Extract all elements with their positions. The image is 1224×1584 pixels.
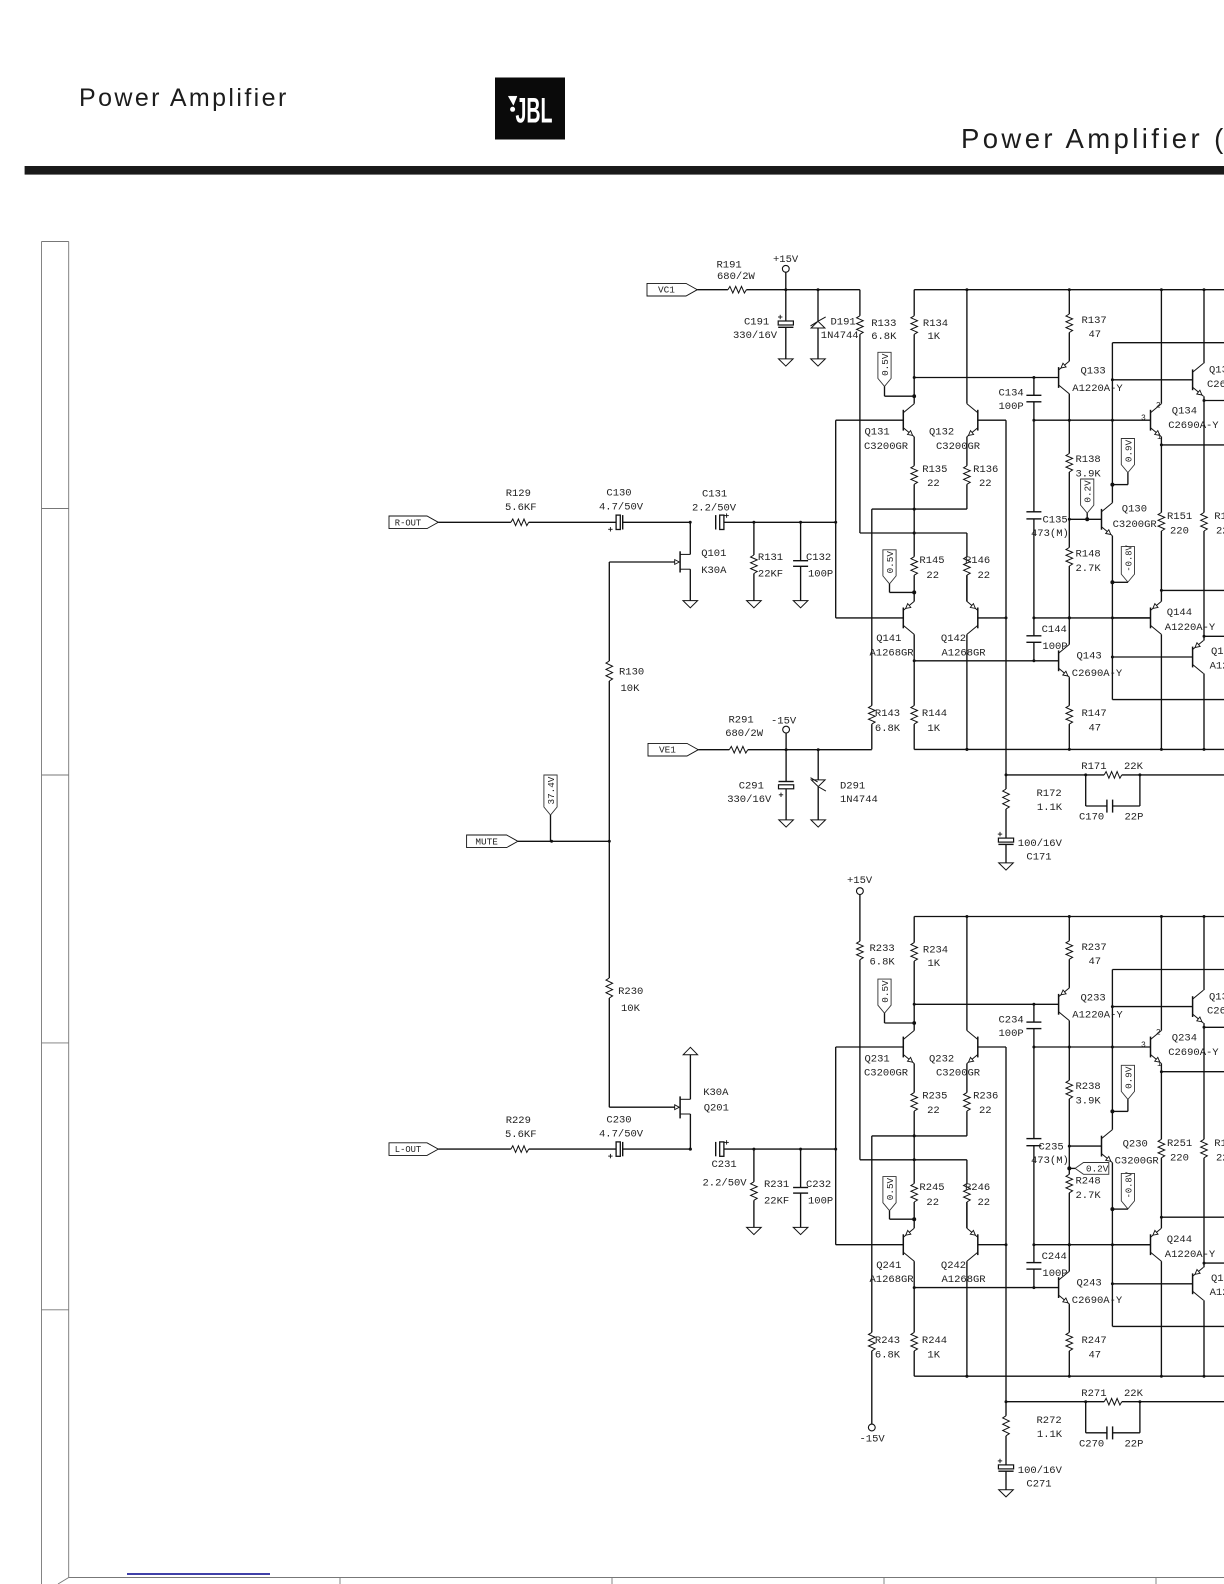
wire — [1068, 959, 1070, 988]
ground — [999, 1490, 1014, 1497]
wire — [1112, 342, 1224, 344]
wire — [697, 289, 728, 291]
junction — [1138, 1400, 1141, 1403]
wire — [966, 437, 968, 466]
svg-text:C2690A-Y: C2690A-Y — [1168, 420, 1219, 432]
svg-text:Q131: Q131 — [865, 427, 890, 439]
resistor R145 — [911, 557, 918, 576]
junction — [912, 1217, 916, 1221]
svg-text:1K: 1K — [927, 1350, 940, 1362]
resistor R233 — [857, 941, 864, 960]
resistor R143 — [869, 706, 876, 725]
svg-text:0.5V: 0.5V — [880, 353, 891, 376]
junction — [1203, 1375, 1206, 1378]
wire — [1033, 402, 1035, 512]
ground — [747, 1227, 762, 1234]
wire — [871, 1351, 873, 1424]
junction — [1111, 1046, 1114, 1049]
svg-text:1K: 1K — [928, 331, 941, 343]
wire — [748, 749, 872, 751]
junction — [913, 1134, 916, 1137]
svg-text:1K: 1K — [928, 958, 941, 970]
junction — [913, 1003, 916, 1006]
svg-text:R231: R231 — [764, 1179, 789, 1191]
junction — [1203, 915, 1206, 918]
svg-text:220: 220 — [1170, 526, 1189, 538]
resistor R291 — [729, 746, 748, 753]
svg-text:22: 22 — [979, 1105, 992, 1117]
capacitor C135 — [1026, 511, 1041, 513]
svg-text:Q143: Q143 — [1077, 651, 1102, 663]
svg-text:C271: C271 — [1026, 1478, 1051, 1490]
svg-text:6.8K: 6.8K — [871, 331, 897, 343]
svg-text:R148: R148 — [1076, 549, 1101, 561]
svg-text:R191: R191 — [717, 260, 742, 272]
svg-text:10K: 10K — [621, 683, 641, 695]
svg-text:0.9V: 0.9V — [1123, 1066, 1134, 1089]
resistor R129 — [511, 519, 529, 526]
wire — [1160, 590, 1162, 601]
svg-text:R171: R171 — [1081, 761, 1106, 773]
wire — [1068, 1099, 1070, 1146]
wire — [529, 1148, 616, 1150]
wire — [518, 840, 609, 842]
capacitor C232 — [793, 1187, 808, 1189]
wire — [1122, 774, 1224, 776]
wire — [818, 289, 860, 291]
transistor Q101 K30A jfet — [679, 551, 681, 572]
wire — [529, 521, 616, 523]
wire — [1033, 378, 1035, 396]
wire — [1033, 1269, 1035, 1288]
junction — [1084, 1400, 1087, 1403]
wire — [715, 521, 717, 523]
svg-text:VC1: VC1 — [658, 285, 675, 296]
transistor Q143 — [1058, 650, 1060, 671]
wire — [785, 789, 787, 820]
svg-text:R230: R230 — [618, 986, 643, 998]
junction — [912, 590, 916, 594]
wire — [746, 289, 785, 291]
transistor Q232 — [977, 1037, 979, 1058]
wire — [1068, 519, 1070, 547]
svg-text:0.9V: 0.9V — [1123, 439, 1134, 462]
wire — [913, 961, 915, 1004]
wire — [608, 841, 610, 978]
svg-text:C3200GR: C3200GR — [936, 441, 981, 453]
wire — [1160, 1261, 1162, 1376]
svg-text:R248: R248 — [1076, 1175, 1101, 1187]
wire — [966, 290, 968, 404]
resistor R133 — [857, 316, 864, 335]
capacitor C170 — [1106, 800, 1108, 813]
svg-text:R238: R238 — [1076, 1081, 1101, 1093]
wire — [1068, 290, 1070, 314]
junction — [965, 288, 968, 291]
svg-text:Q241: Q241 — [876, 1260, 901, 1272]
svg-text:Q234: Q234 — [1172, 1032, 1197, 1044]
connector tag L-OUT — [389, 1143, 438, 1156]
svg-text:C2690A-Y: C2690A-Y — [1072, 668, 1123, 680]
resistor R230 — [606, 978, 613, 998]
wire — [438, 521, 511, 523]
svg-text:5.6KF: 5.6KF — [505, 502, 537, 514]
transistor Q201 K30A jfet — [679, 1096, 681, 1118]
svg-text:R236: R236 — [973, 1091, 998, 1103]
resistor R146 — [964, 557, 971, 576]
wire — [860, 532, 967, 534]
svg-text:C2690A-Y: C2690A-Y — [1207, 379, 1224, 391]
wire — [859, 290, 861, 316]
junction — [965, 748, 968, 751]
capacitor C144 — [1026, 635, 1041, 637]
wire — [1033, 642, 1035, 661]
resistor R244 — [911, 1332, 918, 1351]
svg-text:680/2W: 680/2W — [725, 728, 764, 740]
svg-text:Q135: Q135 — [1209, 991, 1224, 1003]
wire — [913, 378, 915, 397]
svg-text:Q230: Q230 — [1123, 1139, 1148, 1151]
wire — [1112, 1208, 1128, 1210]
svg-text:Q145: Q145 — [1211, 646, 1224, 658]
wire — [1005, 844, 1007, 863]
wire — [871, 509, 873, 705]
capacitor C231 — [715, 1142, 717, 1156]
junction — [689, 521, 692, 524]
wire — [1203, 636, 1205, 640]
wire — [1112, 1325, 1224, 1327]
svg-text:R131: R131 — [758, 552, 783, 564]
resistor R236 — [964, 1093, 971, 1112]
wire — [1203, 1263, 1205, 1267]
wire — [1112, 969, 1224, 971]
wire — [1203, 1300, 1205, 1376]
svg-text:22KF: 22KF — [764, 1195, 789, 1207]
wire — [800, 1149, 802, 1187]
svg-text:473(M): 473(M) — [1031, 528, 1069, 540]
wire — [1160, 1158, 1162, 1217]
wire — [1204, 1026, 1224, 1028]
transistor Q241 — [902, 1234, 904, 1255]
svg-text:2.7K: 2.7K — [1076, 1190, 1102, 1202]
wire — [1112, 581, 1128, 583]
transistor Q135 — [1192, 369, 1194, 390]
wire — [835, 1047, 837, 1245]
svg-text:3: 3 — [1141, 414, 1146, 423]
wire — [1161, 589, 1224, 591]
wire — [978, 617, 1006, 619]
svg-text:3: 3 — [1141, 1041, 1146, 1050]
wire — [785, 327, 787, 359]
wire — [966, 1064, 968, 1093]
svg-text:Q243: Q243 — [1077, 1277, 1102, 1289]
wire — [913, 1202, 915, 1219]
svg-text:22K: 22K — [1124, 1388, 1144, 1400]
junction — [834, 1148, 837, 1151]
junction — [550, 840, 553, 843]
junction — [913, 508, 916, 511]
junction — [1160, 1070, 1163, 1073]
junction — [965, 915, 968, 918]
junction — [1068, 1243, 1071, 1246]
svg-text:47: 47 — [1089, 329, 1102, 341]
voltage flag 0.5V — [878, 352, 891, 386]
svg-text:C132: C132 — [806, 552, 831, 564]
wire — [550, 815, 552, 841]
wire — [1005, 1047, 1007, 1402]
wire — [1005, 809, 1007, 838]
resistor R137 — [1066, 314, 1073, 333]
junction — [1067, 1166, 1071, 1170]
junction — [1005, 773, 1008, 776]
svg-text:Q233: Q233 — [1081, 992, 1106, 1004]
capacitor C244 — [1026, 1262, 1041, 1264]
svg-text:C235: C235 — [1039, 1141, 1064, 1153]
svg-text:22K: 22K — [1124, 761, 1144, 773]
svg-text:C230: C230 — [606, 1114, 631, 1126]
voltage flag 37.4V — [544, 775, 557, 815]
wire — [801, 521, 836, 523]
JBL logo — [495, 78, 565, 140]
svg-text:4.7/50V: 4.7/50V — [599, 1128, 644, 1140]
ground — [779, 359, 794, 366]
ground — [793, 601, 808, 608]
svg-text:R152: R152 — [1214, 1138, 1224, 1150]
wire — [1160, 634, 1162, 749]
svg-text:100P: 100P — [1042, 1268, 1067, 1280]
wire — [859, 334, 861, 533]
junction — [1203, 399, 1206, 402]
junction — [913, 532, 916, 535]
svg-text:22: 22 — [978, 1197, 991, 1209]
svg-text:22: 22 — [926, 1197, 939, 1209]
power terminal +15V — [782, 265, 789, 272]
junction — [1068, 1046, 1071, 1049]
svg-text:47: 47 — [1089, 956, 1102, 968]
svg-text:R235: R235 — [922, 1091, 947, 1103]
junction — [913, 1158, 916, 1161]
junction — [784, 288, 787, 291]
transistor Q242 — [977, 1234, 979, 1255]
junction — [817, 748, 820, 751]
wire — [817, 750, 819, 780]
transistor Q145 — [1192, 647, 1194, 668]
svg-text:C231: C231 — [712, 1159, 737, 1171]
wire — [1204, 635, 1224, 637]
junction — [1068, 915, 1071, 918]
resistor R245 — [911, 1184, 918, 1203]
wire — [871, 1136, 873, 1333]
svg-text:R136: R136 — [973, 464, 998, 476]
svg-text:R-OUT: R-OUT — [395, 518, 421, 528]
wire — [966, 1202, 968, 1228]
wire — [1160, 917, 1162, 1031]
svg-text:220: 220 — [1216, 526, 1224, 538]
svg-text:100P: 100P — [1042, 641, 1067, 653]
junction — [785, 748, 788, 751]
wire — [1161, 1071, 1224, 1073]
wire — [913, 396, 915, 404]
svg-text:Q134: Q134 — [1172, 406, 1197, 418]
wire — [1111, 343, 1113, 503]
wire — [871, 724, 873, 749]
wire — [860, 1159, 967, 1161]
wire — [966, 1160, 968, 1184]
svg-text:10K: 10K — [621, 1003, 641, 1015]
wire — [1005, 1436, 1007, 1465]
junction — [1068, 748, 1071, 751]
svg-text:JBL: JBL — [516, 91, 553, 130]
junction — [912, 1021, 916, 1025]
wire — [1161, 444, 1224, 446]
svg-text:R172: R172 — [1037, 788, 1062, 800]
svg-text:-0.8V: -0.8V — [1124, 544, 1134, 571]
wire — [753, 1200, 755, 1227]
junction — [1005, 1400, 1008, 1403]
junction — [752, 1148, 755, 1151]
junction — [1160, 1375, 1163, 1378]
junction — [1111, 616, 1114, 619]
junction — [834, 521, 837, 524]
svg-text:Q135: Q135 — [1209, 365, 1224, 377]
resistor R234 — [911, 943, 918, 962]
svg-text:C3200GR: C3200GR — [936, 1068, 981, 1080]
svg-text:5.6KF: 5.6KF — [505, 1129, 537, 1141]
capacitor C134 — [1026, 394, 1041, 396]
wire — [966, 634, 968, 749]
svg-text:4.7/50V: 4.7/50V — [599, 502, 644, 514]
resistor R229 — [511, 1146, 529, 1153]
wire — [914, 748, 1224, 750]
wire — [884, 1013, 886, 1023]
junction — [1111, 1005, 1114, 1008]
svg-text:C2690A-Y: C2690A-Y — [1072, 1295, 1123, 1307]
wire — [1034, 1244, 1151, 1246]
svg-text:R144: R144 — [922, 708, 947, 720]
svg-text:22KF: 22KF — [758, 569, 783, 581]
wire — [1068, 566, 1070, 618]
transistor Q134 — [1150, 410, 1152, 431]
junction — [1068, 518, 1071, 521]
wire — [1203, 1158, 1205, 1263]
wire — [1160, 1064, 1162, 1072]
wire — [1005, 420, 1007, 775]
capacitor C291 — [779, 781, 794, 783]
resistor R235 — [911, 1093, 918, 1112]
svg-text:Power Amplifier (: Power Amplifier ( — [961, 123, 1224, 154]
junction — [1111, 378, 1114, 381]
svg-text:A1268GR: A1268GR — [870, 1274, 915, 1286]
junction — [1068, 616, 1071, 619]
wire — [914, 289, 1224, 291]
svg-text:Q242: Q242 — [941, 1260, 966, 1272]
svg-text:22: 22 — [927, 1105, 940, 1117]
resistor R272 — [1003, 1416, 1010, 1436]
junction — [608, 840, 611, 843]
svg-text:D191: D191 — [831, 317, 856, 329]
wire — [913, 1136, 915, 1160]
wire — [836, 617, 904, 619]
junction — [1110, 1109, 1114, 1113]
svg-text:C270: C270 — [1079, 1438, 1104, 1450]
wire — [835, 420, 837, 618]
wire — [608, 562, 610, 661]
junction — [1005, 616, 1008, 619]
svg-text:A1268GR: A1268GR — [870, 647, 915, 659]
voltage flag 0.2V — [1075, 1163, 1109, 1175]
wire — [438, 1148, 511, 1150]
voltage flag 0.9V — [1121, 1065, 1134, 1099]
svg-text:R229: R229 — [506, 1115, 531, 1127]
junction — [1084, 773, 1087, 776]
svg-text:Q133: Q133 — [1081, 366, 1106, 378]
svg-text:A1220A-Y: A1220A-Y — [1165, 1249, 1216, 1261]
transistor Q231 — [902, 1037, 904, 1058]
connector tag MUTE — [467, 835, 518, 848]
zener diode D191 — [811, 321, 825, 328]
wire — [836, 1046, 904, 1048]
junction — [913, 376, 916, 379]
junction — [1203, 1262, 1206, 1265]
svg-text:47: 47 — [1089, 1349, 1102, 1361]
transistor Q144 — [1150, 608, 1152, 629]
transistor Q132 — [977, 410, 979, 431]
resistor R191 — [728, 286, 747, 293]
svg-text:Q101: Q101 — [701, 548, 726, 560]
svg-text:Q232: Q232 — [929, 1053, 954, 1065]
svg-text:Q231: Q231 — [865, 1053, 890, 1065]
svg-text:680/2W: 680/2W — [717, 271, 756, 283]
wire — [817, 290, 819, 322]
wire — [913, 1261, 915, 1332]
svg-text:220: 220 — [1170, 1152, 1189, 1164]
wire — [913, 575, 915, 592]
svg-text:6.8K: 6.8K — [870, 957, 896, 969]
wire — [800, 522, 802, 560]
svg-text:C135: C135 — [1043, 515, 1068, 527]
svg-text:C3200GR: C3200GR — [1113, 519, 1158, 531]
zener diode D291 — [811, 780, 825, 787]
wire — [1204, 400, 1224, 402]
svg-text:K30A: K30A — [703, 1087, 729, 1099]
resistor R246 — [964, 1184, 971, 1203]
wire — [1005, 1471, 1007, 1490]
junction — [1203, 748, 1206, 751]
wire — [715, 1148, 717, 1150]
resistor R271 — [1104, 1398, 1122, 1405]
wire — [1112, 1283, 1192, 1285]
junction — [1068, 616, 1071, 619]
svg-text:C144: C144 — [1042, 624, 1067, 636]
junction — [1203, 1026, 1206, 1029]
svg-text:R291: R291 — [729, 715, 754, 727]
wire — [1161, 1216, 1224, 1218]
wire — [1112, 656, 1192, 658]
capacitor C132 — [793, 560, 808, 562]
transistor Q131 — [902, 410, 904, 431]
svg-text:R245: R245 — [919, 1182, 944, 1194]
junction — [1160, 915, 1163, 918]
transistor Q243 — [1058, 1277, 1060, 1298]
capacitor C130 — [622, 515, 624, 529]
junction — [689, 1148, 692, 1151]
wire — [1160, 445, 1162, 513]
wire — [1005, 1402, 1007, 1416]
junction — [1032, 419, 1035, 422]
transistor Q244 — [1150, 1234, 1152, 1255]
svg-text:R137: R137 — [1082, 315, 1107, 327]
svg-text:C291: C291 — [739, 781, 764, 793]
